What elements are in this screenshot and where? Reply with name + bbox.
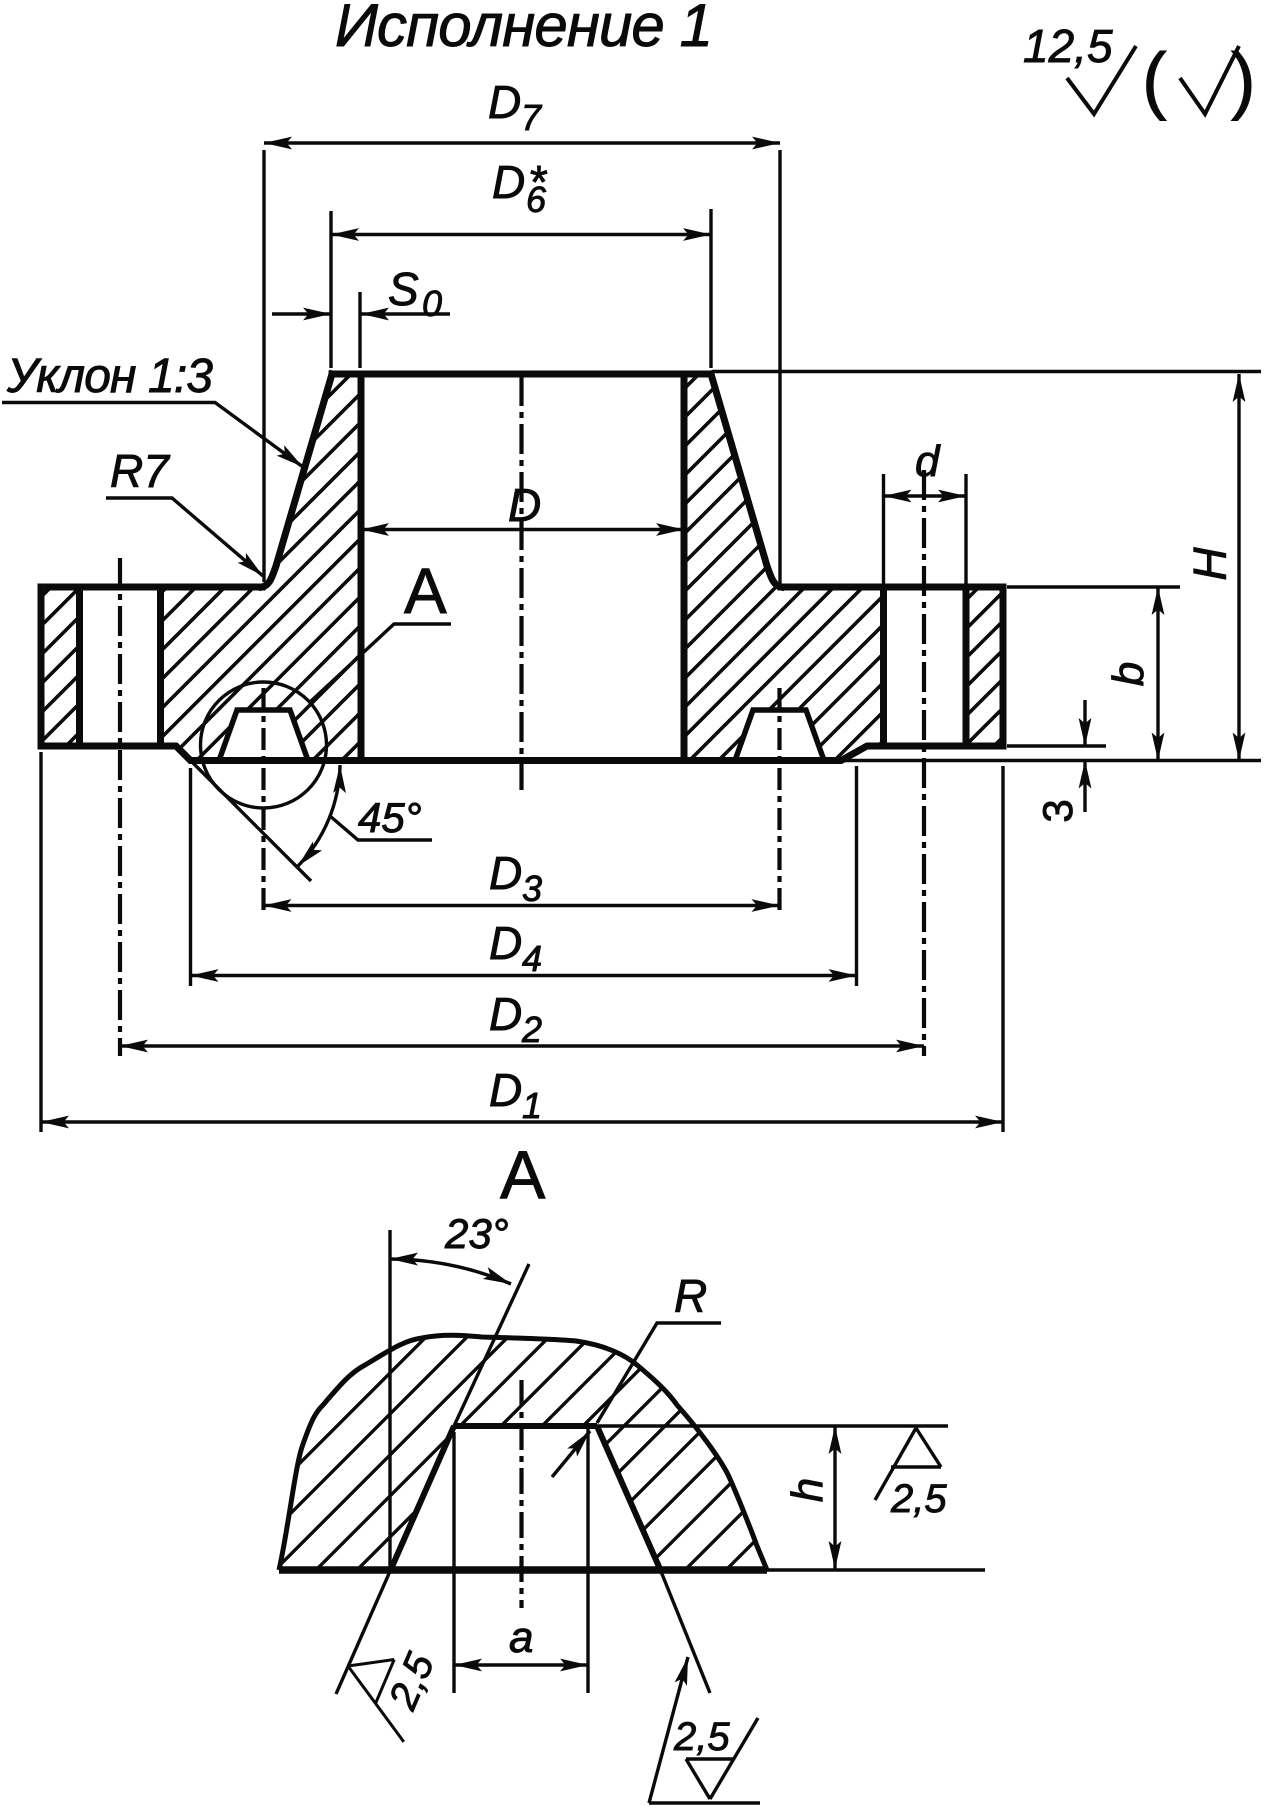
D7 extension lines bbox=[264, 150, 780, 584]
svg-text:0: 0 bbox=[422, 283, 442, 324]
hub top edge bbox=[332, 371, 711, 378]
detail bottom surface thick line bbox=[279, 1566, 767, 1574]
bolt hole right: walls bbox=[884, 587, 967, 746]
D1 extension lines bbox=[41, 752, 1003, 1132]
flange top left bbox=[41, 584, 262, 591]
svg-text:4: 4 bbox=[522, 938, 542, 979]
thin bottom surface extension bbox=[767, 1568, 985, 1571]
23deg arc bbox=[390, 1259, 511, 1284]
roughness symbol bottom (with shelf) bbox=[686, 1718, 758, 1799]
svg-text:b: b bbox=[1104, 662, 1153, 686]
groove right flank thick bbox=[597, 1426, 660, 1569]
svg-text:S: S bbox=[388, 263, 419, 315]
dimension lines with arrows bbox=[41, 143, 1239, 1122]
detail mound hatched bbox=[279, 1335, 767, 1570]
svg-text:A: A bbox=[500, 1137, 546, 1213]
hatched right body of flange section bbox=[684, 374, 884, 761]
3 top extension bbox=[1007, 744, 1106, 747]
svg-text:): ) bbox=[1231, 38, 1256, 121]
svg-text:D: D bbox=[508, 479, 541, 531]
svg-text:d: d bbox=[915, 437, 941, 486]
hub right slope with fillet bbox=[711, 374, 781, 587]
hatched left rim strip bbox=[41, 587, 80, 746]
S0 extension line (bore) bbox=[358, 292, 361, 368]
centerline left groove bbox=[261, 688, 265, 916]
flange left edge bbox=[38, 587, 45, 746]
b top extension bbox=[1007, 585, 1180, 588]
leader Уклон 1:3 bbox=[2, 403, 451, 841]
svg-text:2,5: 2,5 bbox=[673, 1715, 730, 1759]
D6 extension lines bbox=[331, 209, 711, 368]
svg-text:D: D bbox=[489, 1064, 522, 1116]
svg-text:D: D bbox=[492, 156, 525, 208]
D4 extension lines bbox=[191, 766, 857, 986]
groove right outline bbox=[735, 710, 824, 761]
svg-text:1: 1 bbox=[522, 1085, 542, 1126]
main outlines bbox=[41, 374, 1003, 761]
45 construction line bbox=[183, 753, 311, 881]
leader to bottom roughness symbol bbox=[649, 1657, 688, 1803]
svg-text:12,5: 12,5 bbox=[1023, 20, 1113, 72]
a extension lines bbox=[454, 1426, 588, 1693]
groove left flank thick bbox=[391, 1426, 454, 1569]
svg-text:R: R bbox=[674, 1270, 707, 1322]
centerline main axis bbox=[519, 376, 523, 792]
svg-text:D: D bbox=[489, 988, 522, 1040]
bottom roughness shelf bbox=[649, 1801, 760, 1804]
svg-text:45°: 45° bbox=[358, 794, 422, 841]
svg-text:Исполнение 1: Исполнение 1 bbox=[335, 0, 713, 59]
svg-text:7: 7 bbox=[521, 97, 543, 138]
svg-text:2: 2 bbox=[521, 1009, 542, 1050]
bore right edge bbox=[681, 374, 688, 761]
svg-text:R7: R7 bbox=[110, 445, 170, 497]
bottom extension for H,b,3 bbox=[843, 759, 1261, 762]
svg-text:a: a bbox=[509, 1613, 533, 1662]
d extension lines bbox=[884, 474, 967, 585]
svg-text:*: * bbox=[528, 156, 548, 208]
leader R7 bbox=[106, 498, 263, 576]
svg-text:Уклон 1:3: Уклон 1:3 bbox=[6, 350, 213, 403]
a dimension bbox=[454, 1663, 588, 1666]
hatched right rim strip bbox=[966, 587, 1003, 746]
groove centerline detail bbox=[519, 1380, 523, 1608]
svg-text:A: A bbox=[404, 555, 447, 627]
d dimension bbox=[884, 494, 967, 497]
centerline right bolt hole bbox=[922, 470, 926, 1056]
roughness note 12,5 top right bbox=[1023, 20, 1256, 121]
svg-text:D: D bbox=[488, 76, 521, 128]
leader 45deg bbox=[330, 816, 432, 840]
vertical reference line for 23deg bbox=[388, 1230, 391, 1572]
centerline left bolt hole bbox=[118, 558, 122, 1056]
D6 dimension bbox=[331, 233, 711, 236]
svg-text:3: 3 bbox=[522, 868, 542, 909]
hatched left body of flange section bbox=[161, 374, 362, 761]
D7 dimension bbox=[264, 141, 780, 144]
svg-text:(: ( bbox=[1142, 38, 1167, 121]
flange bottom with raised face and 45deg bevels bbox=[41, 746, 1003, 761]
right flank extension for roughness leader bbox=[660, 1569, 710, 1693]
thin extension lines bbox=[41, 150, 1261, 1132]
D1 dimension bbox=[41, 1120, 1003, 1123]
svg-text:23°: 23° bbox=[444, 1210, 509, 1257]
R leader with arrow bbox=[552, 1431, 590, 1477]
b dimension bbox=[1156, 587, 1159, 761]
svg-text:D: D bbox=[489, 847, 522, 899]
svg-text:3: 3 bbox=[1034, 799, 1081, 822]
svg-text:H: H bbox=[1184, 547, 1236, 581]
D4 dimension bbox=[191, 974, 857, 977]
detail mound outline bbox=[279, 1335, 767, 1570]
D2 dimension bbox=[120, 1044, 924, 1047]
H dimension bbox=[1237, 374, 1240, 761]
45deg arc with arrows bbox=[298, 765, 340, 866]
hub left slope 1:3 with fillet R7 bbox=[262, 374, 332, 587]
bore left edge bbox=[358, 374, 365, 761]
left flank construction extension bbox=[336, 1264, 529, 1694]
S0 dimension arrows (outside) bbox=[272, 312, 331, 315]
svg-text:h: h bbox=[783, 1478, 832, 1502]
svg-text:2,5: 2,5 bbox=[890, 1477, 947, 1521]
D3 dimension bbox=[264, 904, 780, 907]
roughness symbol right (on groove top surface plane) bbox=[875, 1428, 941, 1500]
flange right edge bbox=[1000, 587, 1007, 746]
flange top right bbox=[781, 584, 1003, 591]
bolt hole left: walls bbox=[80, 587, 161, 746]
groove top edge thick bbox=[454, 1423, 597, 1429]
detail circle A around left groove bbox=[201, 682, 327, 808]
centerline right groove bbox=[777, 688, 781, 916]
thin surface extension right of groove top bbox=[597, 1424, 948, 1427]
groove left outline bbox=[219, 710, 824, 761]
h dimension bbox=[833, 1426, 836, 1569]
roughness symbol on left flank (rotated) bbox=[329, 1644, 432, 1742]
D dimension bbox=[361, 528, 684, 531]
H top extension bbox=[713, 370, 1261, 373]
svg-text:D: D bbox=[489, 917, 522, 969]
3 dimension arrows (outside) bbox=[1083, 700, 1086, 746]
leader A (to detail circle) bbox=[310, 624, 451, 702]
